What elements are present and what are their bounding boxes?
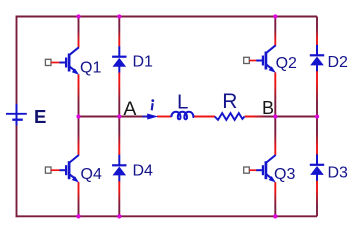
junction dot bottom Q3 [273,214,277,218]
junction dot top Q2 [273,14,277,18]
svg-text:B: B [262,98,274,118]
wire D1 cathode branch [118,17,120,47]
junction dot top Q1 [76,14,80,18]
wire Q1 collector branch [78,17,80,48]
wire bottom rail [16,215,317,217]
wire D4 anode branch [118,181,120,216]
wire left rail upper (E top lead) [16,16,18,104]
current i label [151,99,154,110]
svg-text:D4: D4 [133,163,154,180]
svg-text:Q2: Q2 [276,55,297,72]
wire resistor to node B segment [245,116,276,118]
wire arrow to inductor segment [157,116,172,118]
diode D2 [310,45,324,71]
svg-text:D3: D3 [328,165,349,182]
junction dot bottom D4 [117,214,121,218]
wire Q3 collector branch [274,117,276,156]
wire Q4 collector branch [78,117,80,156]
wire inductor to resistor segment [194,116,216,118]
resistor R [215,113,245,120]
wire Q2 emitter branch [274,72,276,116]
svg-text:Q4: Q4 [81,166,102,183]
svg-text:A: A [123,98,136,120]
wire D2 anode branch [316,71,318,117]
diode D3 [310,154,324,180]
transistor Q3 [244,155,276,183]
wire node B to D2 branch segment [275,116,317,118]
wire Q1 emitter branch [78,74,80,116]
wire D1 anode branch [118,72,120,116]
svg-text:D1: D1 [133,54,154,71]
svg-text:D2: D2 [328,54,349,71]
wire node A to arrow segment [79,116,149,118]
junction dot top D1 [117,14,121,18]
svg-text:Q1: Q1 [80,60,101,77]
wire Q4 emitter branch [78,182,80,216]
junction dot mid D2 [315,114,319,118]
wire top rail [16,16,317,18]
wire Q3 emitter branch [274,182,276,216]
wire D4 cathode branch [118,117,120,156]
junction dot bottom Q4 [76,214,80,218]
wire left rail lower (E bottom lead) [16,126,18,218]
wire D2 cathode branch [316,17,318,46]
svg-text:L: L [177,91,188,114]
wire D3 cathode branch [316,117,318,155]
svg-text:Q3: Q3 [274,166,295,183]
current arrow [143,116,150,118]
transistor Q4 [45,155,79,183]
junction dot mid D1 [117,114,121,118]
junction dot node A [76,114,80,118]
junction dot node B [273,114,277,118]
battery E [6,104,27,126]
inductor L [171,112,194,120]
transistor Q1 [45,47,79,75]
wire D3 anode branch [316,181,318,217]
svg-text:R: R [222,90,237,113]
diode D4 [112,155,126,181]
diode D1 [112,46,126,72]
svg-text:E: E [34,106,46,127]
wire Q2 collector branch [274,17,276,46]
transistor Q2 [244,45,276,73]
